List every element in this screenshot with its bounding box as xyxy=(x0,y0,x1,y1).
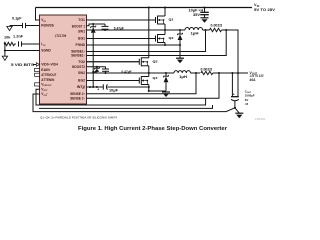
node SW2 xyxy=(148,72,150,74)
svg-text:Q2: Q2 xyxy=(169,36,174,40)
node rail-CIN xyxy=(203,6,205,8)
svg-text:DIFFOUT: DIFFOUT xyxy=(44,85,53,87)
node SENSE1- tap xyxy=(225,29,227,31)
svg-text:10µF ×4: 10µF ×4 xyxy=(189,9,204,13)
ground D2 xyxy=(162,92,170,97)
transistor Q3 xyxy=(87,57,158,66)
wire VIN rail xyxy=(36,7,253,9)
wire SW1 xyxy=(87,29,166,31)
svg-text:PGND: PGND xyxy=(76,43,86,47)
wire VOS- remote sense xyxy=(36,89,206,105)
svg-text:BG2: BG2 xyxy=(78,79,85,83)
resistor R2 0.002 xyxy=(201,67,213,74)
svg-text:CC: CC xyxy=(82,88,86,90)
wire SENSE1+ xyxy=(87,30,206,52)
wire sense tap drop xyxy=(231,73,233,96)
node CIV-Q4 xyxy=(148,86,150,88)
net VIN label xyxy=(254,3,276,12)
capacitor CC 1.2nF xyxy=(13,35,40,47)
svg-text:Q1: Q1 xyxy=(169,17,174,21)
wire TG2 xyxy=(87,61,140,63)
ground D1 xyxy=(176,58,184,63)
U1 pin labels xyxy=(41,18,86,100)
diode D1 schottky xyxy=(177,30,182,58)
caption xyxy=(78,126,228,132)
wire DB2 anode jog xyxy=(92,71,97,73)
wire R2 to VOUT xyxy=(213,72,238,74)
wire Q4 drain xyxy=(148,73,150,77)
node SENSE1+ tap xyxy=(204,29,206,31)
node Q4 source junction xyxy=(148,90,150,92)
svg-text:SENSE 2: SENSE 2 xyxy=(70,92,84,96)
wire SW2 xyxy=(87,72,149,74)
wire TG1 xyxy=(87,19,156,21)
svg-text:0.002Ω: 0.002Ω xyxy=(211,24,223,28)
node SW1 xyxy=(164,29,166,31)
wire Q3 drain xyxy=(148,8,150,58)
wire BOOST1 xyxy=(87,24,106,26)
svg-text:40A: 40A xyxy=(250,78,257,82)
wire VOS+ remote sense xyxy=(33,94,235,112)
wire L2 to R2 xyxy=(191,72,201,74)
svg-text:+: + xyxy=(97,88,99,92)
node rail-Q3 xyxy=(148,6,150,8)
node SW2-D2 xyxy=(165,72,167,74)
node SGND junction xyxy=(4,49,6,51)
node BOOST1-DB1 xyxy=(92,23,94,25)
ground COUT xyxy=(235,113,243,118)
svg-text:ATTENIN: ATTENIN xyxy=(41,78,55,82)
svg-text:0.002Ω: 0.002Ω xyxy=(201,67,213,71)
wire VOUT stub xyxy=(238,72,248,74)
diode DB1 xyxy=(91,24,96,33)
node VOUT sense tap xyxy=(231,72,233,74)
wire Q1 drain xyxy=(164,8,166,17)
svg-text:35V: 35V xyxy=(193,13,201,17)
capacitor CB2 0.47uF xyxy=(102,67,132,74)
ground CIN xyxy=(201,18,209,23)
svg-text:EAIN: EAIN xyxy=(41,68,50,72)
node SENSE2- tap xyxy=(218,72,220,74)
node INTVCC-DB2 xyxy=(96,86,98,88)
svg-text:RUN/SS: RUN/SS xyxy=(41,24,54,28)
wire Q1 source xyxy=(164,24,166,30)
resistor R1 0.002 xyxy=(210,24,223,32)
wire Q2 drain xyxy=(164,30,166,35)
wire L1 to R1 xyxy=(203,29,210,31)
note transistors xyxy=(40,116,117,120)
inductor L1 1uH xyxy=(185,27,203,35)
svg-text:BOOST2: BOOST2 xyxy=(72,65,85,69)
svg-text:1µH: 1µH xyxy=(191,31,200,35)
capacitor CB1 0.47uF xyxy=(102,24,124,31)
node PGND-D1 xyxy=(179,44,181,46)
node SW1-D1 xyxy=(179,29,181,31)
net VOUT label xyxy=(250,71,265,82)
svg-text:Figure 1. High Current 2-Phase: Figure 1. High Current 2-Phase Step-Down… xyxy=(78,126,228,132)
svg-text:TG1: TG1 xyxy=(78,18,85,22)
wire BOOST2 xyxy=(87,66,106,68)
note fig tag xyxy=(255,118,266,121)
ground CSS xyxy=(7,26,12,30)
wire SW1 run xyxy=(165,29,185,31)
svg-text:SENSE1: SENSE1 xyxy=(71,54,84,58)
capacitor CIN 10uF x4 35V xyxy=(189,8,209,18)
node EAIN stub xyxy=(35,68,40,71)
node VID bus arrow xyxy=(11,63,40,67)
wire SGND xyxy=(5,51,40,57)
ground SGND xyxy=(2,56,7,60)
wire RC to ground xyxy=(3,44,6,51)
node CB1-SW1 xyxy=(104,29,106,31)
svg-text:VID0–VID4: VID0–VID4 xyxy=(41,63,58,67)
svg-text:BOOST 1: BOOST 1 xyxy=(72,24,85,28)
node Q2 source-PGND xyxy=(164,44,166,46)
svg-text:Q1–Q4: 2× FAIRCHILD FDS7760A O: Q1–Q4: 2× FAIRCHILD FDS7760A OR SILICONI… xyxy=(40,116,117,120)
wire BG2 xyxy=(87,80,140,82)
wire Q4 source xyxy=(149,85,166,92)
wire SW2 run xyxy=(149,72,174,74)
svg-text:TH: TH xyxy=(42,45,45,47)
svg-text:×8: ×8 xyxy=(245,102,249,106)
wire VOUT to COUT xyxy=(237,73,239,96)
svg-text:SENSE 2: SENSE 2 xyxy=(70,96,84,100)
svg-text:1709 F01: 1709 F01 xyxy=(255,118,266,121)
svg-text:+: + xyxy=(233,92,235,96)
node INTVCC-DB1 xyxy=(92,86,94,88)
wire Q3 source xyxy=(148,66,150,73)
node VDIFFOUT stub xyxy=(35,83,40,86)
svg-text:ATTENOUT: ATTENOUT xyxy=(41,73,56,77)
wire SENSE2- xyxy=(87,73,220,98)
wire PGND xyxy=(87,44,181,46)
svg-text:TG2: TG2 xyxy=(78,60,85,64)
node CB2-SW2 xyxy=(104,72,106,74)
wire Q2 source xyxy=(164,43,166,46)
wire sense bus middle xyxy=(39,105,213,108)
node BOOST2-DB2 xyxy=(96,66,98,68)
svg-text:BG1: BG1 xyxy=(78,37,85,41)
transistor Q1 xyxy=(87,16,174,25)
svg-text:10µF: 10µF xyxy=(109,88,118,92)
svg-text:5 VID BITS: 5 VID BITS xyxy=(11,63,35,67)
wire SENSE2+ xyxy=(87,73,197,94)
svg-text:SGND: SGND xyxy=(41,49,51,53)
svg-text:SW2: SW2 xyxy=(78,71,85,75)
svg-text:10k: 10k xyxy=(4,35,10,39)
wire DB1 anode to INTVCC xyxy=(92,33,94,87)
diode DB2 xyxy=(94,67,99,72)
diode D2 schottky xyxy=(163,73,168,91)
wire CIV to Q4 source xyxy=(107,86,149,88)
transistor Q4 xyxy=(87,76,158,85)
wire INTVCC xyxy=(87,86,104,88)
svg-text:Q3: Q3 xyxy=(153,59,158,63)
resistor RC 10k xyxy=(4,35,16,45)
capacitor CSS 0.1uF xyxy=(10,16,40,28)
svg-text:Q4: Q4 xyxy=(153,76,158,80)
svg-text:5V TO 28V: 5V TO 28V xyxy=(254,8,276,12)
svg-text:0.1µF: 0.1µF xyxy=(12,16,22,20)
wire R1 to VOUT xyxy=(222,30,239,73)
wire SENSE1- xyxy=(87,30,227,56)
node VOUT junction xyxy=(237,72,239,74)
node rail-Q1 xyxy=(164,6,166,8)
node SENSE2+ tap xyxy=(195,72,197,74)
node ATTENOUT stub xyxy=(35,73,40,76)
op-amp U1 LTC1709 body xyxy=(40,15,87,104)
wire BG1 xyxy=(87,38,156,40)
svg-text:1.2nF: 1.2nF xyxy=(13,35,23,39)
node INTVCC a xyxy=(89,86,91,88)
capacitor COUT 1000uF 6V x8 xyxy=(231,90,255,114)
inductor L2 1uH xyxy=(174,71,191,79)
transistor Q2 xyxy=(87,34,174,43)
svg-text:LTC1709: LTC1709 xyxy=(55,34,67,38)
svg-text:SW1: SW1 xyxy=(78,30,85,34)
capacitor CIV 10uF xyxy=(97,84,118,92)
wire VIN pin feed xyxy=(36,8,40,21)
svg-text:1µH: 1µH xyxy=(179,75,188,79)
